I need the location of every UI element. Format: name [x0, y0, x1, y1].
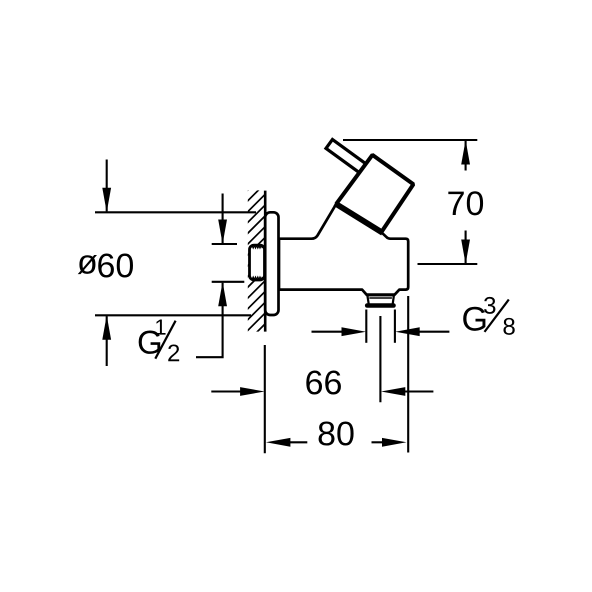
spout inner thread line	[369, 297, 392, 299]
wall flange escutcheon	[265, 212, 278, 315]
dim ø60: top extension line	[95, 211, 256, 213]
dim 66: text	[306, 370, 341, 394]
dim ø60: bottom extension line	[95, 314, 251, 316]
G1/2 threaded inlet pipe	[250, 245, 265, 280]
nozzle right extension line	[394, 310, 396, 343]
spout bottom edge G3/8 nipple	[367, 303, 393, 308]
spout top collar line	[366, 293, 395, 296]
dim 70: text	[448, 191, 483, 215]
wall face line	[264, 191, 267, 332]
dim G1/2: up arrow with leader	[196, 283, 223, 358]
thread crest marks top	[252, 246, 262, 249]
dim 80: text	[319, 421, 354, 445]
nozzle center line	[379, 316, 381, 402]
dim 80: right arrow (points right)	[372, 441, 384, 443]
handle lever pin	[326, 139, 368, 174]
dim 66: right arrow	[400, 390, 433, 392]
dim G1/2: down arrow	[222, 194, 224, 244]
dim G3/8: text G	[463, 307, 485, 331]
valve body outline	[279, 204, 408, 295]
wall face extension line	[264, 345, 266, 453]
dim G3/8: right arrow	[413, 331, 449, 333]
thread crest marks bottom	[252, 277, 262, 280]
nozzle left extension line	[365, 310, 367, 343]
body right edge extension line	[407, 296, 409, 453]
spout right side	[393, 296, 394, 304]
wall hatching	[246, 150, 267, 365]
dim G3/8: fraction 8	[503, 318, 514, 335]
dim ø60: down arrow above top line	[106, 160, 108, 212]
dim G1/2: text G	[139, 331, 161, 354]
dim 70: dimension line upper segment + up arrow	[465, 141, 467, 171]
dim G3/8: fraction 3	[484, 297, 495, 314]
dim G1/2: fraction 1	[156, 319, 165, 334]
dim 80: left arrow (points left)	[288, 441, 307, 443]
dim G1/2: top extension line	[212, 243, 237, 245]
dim 70: bottom extension line	[418, 263, 478, 265]
dim 66: left arrow	[211, 390, 245, 392]
dim 70: top extension line (handle top)	[343, 139, 477, 141]
dim ø60: up arrow below bottom line	[106, 316, 108, 366]
handle cylinder	[336, 155, 413, 232]
spout left side	[368, 296, 369, 304]
dim 70: dimension line lower segment + down arrow	[465, 231, 467, 264]
dim G3/8: fraction slash	[485, 300, 509, 332]
dim G1/2: bottom extension line	[212, 281, 245, 283]
dim G1/2: fraction 2	[168, 344, 179, 361]
handle base collar (thick)	[335, 203, 383, 233]
dim G1/2: fraction slash	[155, 321, 175, 359]
dim ø60: text	[78, 255, 97, 274]
dim G3/8: left arrow	[312, 331, 351, 333]
